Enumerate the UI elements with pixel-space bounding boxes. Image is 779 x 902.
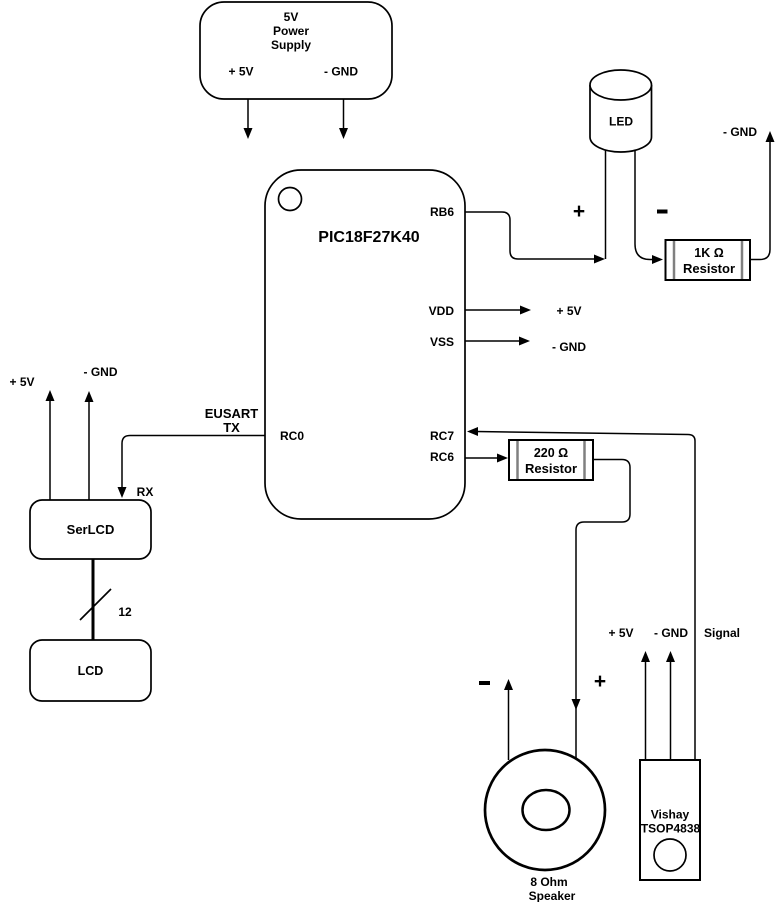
resistor R2 220 bbox=[509, 440, 593, 480]
label RX bbox=[137, 485, 154, 499]
svg-text:RX: RX bbox=[137, 485, 154, 499]
svg-text:- GND: - GND bbox=[84, 365, 118, 379]
wire: LED cathode leg to resistor bbox=[635, 150, 663, 264]
svg-text:+ 5V: + 5V bbox=[228, 65, 253, 79]
SerLCD module U2 bbox=[30, 500, 151, 559]
wire: TSOP +5V up arrow bbox=[641, 651, 650, 760]
wire: RC6 to resistor R2 bbox=[465, 454, 508, 463]
svg-text:Resistor: Resistor bbox=[683, 261, 735, 276]
label + 5V (TSOP) bbox=[608, 626, 633, 640]
svg-text:TSOP4838: TSOP4838 bbox=[641, 822, 701, 836]
label - GND (TSOP) bbox=[654, 626, 688, 640]
svg-text:EUSART: EUSART bbox=[205, 406, 259, 421]
svg-text:VSS: VSS bbox=[430, 335, 454, 349]
label EUSART TX bbox=[205, 406, 259, 435]
wire: VDD to +5V arrow bbox=[465, 306, 531, 315]
svg-text:Supply: Supply bbox=[271, 38, 311, 52]
svg-text:RC0: RC0 bbox=[280, 429, 304, 443]
svg-text:Signal: Signal bbox=[704, 626, 740, 640]
svg-text:Speaker: Speaker bbox=[529, 889, 576, 902]
svg-text:1K Ω: 1K Ω bbox=[694, 246, 723, 260]
svg-text:+: + bbox=[573, 200, 585, 223]
svg-text:- GND: - GND bbox=[654, 626, 688, 640]
wire: RB6 to LED anode bbox=[465, 212, 605, 264]
wire: TSOP GND up arrow bbox=[666, 651, 675, 760]
svg-text:SerLCD: SerLCD bbox=[67, 522, 115, 537]
svg-text:TX: TX bbox=[223, 420, 240, 435]
svg-text:+ 5V: + 5V bbox=[608, 626, 633, 640]
wire: power supply GND down arrow bbox=[339, 99, 348, 139]
label + 5V (SerLCD) bbox=[9, 375, 34, 389]
pin RB6 bbox=[430, 205, 454, 219]
svg-text:VDD: VDD bbox=[429, 304, 455, 318]
pin RC6 bbox=[430, 450, 454, 464]
pin RC7 bbox=[430, 429, 454, 443]
power supply PS1 bbox=[200, 2, 392, 99]
LED D1 bbox=[590, 70, 652, 152]
wire: R1 to GND up arrow bbox=[750, 131, 775, 260]
svg-text:- GND: - GND bbox=[324, 65, 358, 79]
label - (LED cathode) bbox=[657, 210, 668, 214]
pin RC0 bbox=[280, 429, 304, 443]
label + (speaker) bbox=[594, 670, 606, 693]
wire: VSS to GND arrow bbox=[465, 337, 530, 346]
wire: SerLCD +5V up arrow bbox=[46, 390, 55, 500]
wire: SerLCD GND up arrow bbox=[85, 391, 94, 500]
svg-text:Power: Power bbox=[273, 24, 309, 38]
pin VDD bbox=[429, 304, 455, 318]
microcontroller U1 PIC18F27K40 bbox=[265, 170, 465, 519]
svg-text:+ 5V: + 5V bbox=[9, 375, 34, 389]
label + (LED anode) bbox=[573, 200, 585, 223]
label - GND (VSS) bbox=[552, 340, 586, 354]
label - GND (SerLCD) bbox=[84, 365, 118, 379]
svg-text:- GND: - GND bbox=[552, 340, 586, 354]
svg-text:5V: 5V bbox=[284, 10, 299, 24]
wire: R2 to speaker + bbox=[572, 460, 631, 759]
LCD display bbox=[30, 640, 151, 701]
svg-text:- GND: - GND bbox=[723, 125, 757, 139]
wire: TSOP signal to RC7 bbox=[467, 427, 695, 760]
label - (speaker) bbox=[479, 681, 490, 685]
wire: speaker - up arrow bbox=[504, 679, 513, 760]
IR receiver U3 Vishay TSOP4838 bbox=[640, 760, 701, 880]
svg-text:LED: LED bbox=[609, 115, 633, 129]
label + 5V (VDD) bbox=[556, 304, 581, 318]
svg-text:RB6: RB6 bbox=[430, 205, 454, 219]
svg-text:220 Ω: 220 Ω bbox=[534, 446, 568, 460]
svg-text:Vishay: Vishay bbox=[651, 808, 690, 822]
svg-text:+: + bbox=[594, 670, 606, 693]
label 12 bbox=[118, 605, 132, 619]
label Signal bbox=[704, 626, 740, 640]
bus: SerLCD to LCD (12 lines) bbox=[80, 559, 111, 640]
svg-text:PIC18F27K40: PIC18F27K40 bbox=[318, 229, 419, 246]
svg-text:LCD: LCD bbox=[78, 664, 104, 678]
svg-text:+ 5V: + 5V bbox=[556, 304, 581, 318]
svg-text:RC7: RC7 bbox=[430, 429, 454, 443]
resistor R1 1K bbox=[666, 240, 751, 280]
label - GND (top right) bbox=[723, 125, 757, 139]
svg-text:12: 12 bbox=[118, 605, 132, 619]
wire: power supply +5V down arrow bbox=[244, 99, 253, 139]
pin VSS bbox=[430, 335, 454, 349]
wire: LED anode leg bbox=[605, 150, 607, 259]
svg-text:RC6: RC6 bbox=[430, 450, 454, 464]
wire: RC0 to SerLCD RX bbox=[118, 436, 266, 499]
svg-text:8 Ohm: 8 Ohm bbox=[530, 875, 567, 889]
speaker SP1 bbox=[485, 750, 605, 902]
svg-text:Resistor: Resistor bbox=[525, 461, 577, 476]
